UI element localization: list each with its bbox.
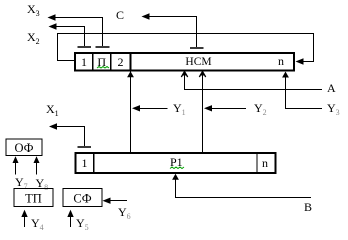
svg-text:А: А [327, 81, 336, 95]
svg-text:1: 1 [82, 156, 88, 170]
svg-text:СФ: СФ [73, 192, 91, 206]
svg-text:n: n [278, 54, 284, 68]
wire Y4 arrow into ТП [24, 216, 26, 227]
green squiggle under П [97, 67, 109, 69]
svg-text:ТП: ТП [25, 192, 42, 206]
wire X3 output arrow [55, 18, 103, 47]
svg-text:1: 1 [81, 55, 87, 69]
wire Y5 arrow into СФ [70, 216, 72, 227]
terminal over cell 1 [78, 46, 92, 48]
terminal over Р1 cell 1 [78, 146, 92, 148]
wire Y3 into n-cell bottom [286, 76, 323, 109]
wire C arrow [149, 17, 197, 48]
wire Y2 vertical from НСМ to Р1 [202, 72, 204, 153]
register Р1 [76, 153, 276, 173]
wire bus from left register edge to n-cell input [58, 34, 314, 62]
svg-text:НСМ: НСМ [185, 56, 211, 68]
svg-text:В: В [304, 200, 312, 214]
block СФ [63, 189, 102, 207]
block ОФ [6, 139, 42, 156]
svg-text:n: n [262, 156, 268, 170]
register НСМ [75, 53, 294, 71]
wire A into НСМ bottom [185, 75, 323, 90]
svg-text:ОФ: ОФ [14, 141, 33, 155]
svg-text:C: C [116, 8, 124, 22]
wire Y1 arrow into left vertical [140, 108, 168, 110]
terminal over НСМ cell [190, 47, 204, 49]
terminal over cell П [96, 46, 110, 48]
wire B into Р1 bottom [176, 178, 312, 198]
svg-text:2: 2 [118, 55, 124, 69]
wire НСМ output to Р1 (left vertical) [130, 72, 132, 153]
wire X1 output arrow [57, 127, 85, 147]
wire Y6 arrow into СФ right side [110, 200, 127, 202]
wire Y2 arrow into vertical [212, 108, 246, 110]
wire Y8 arrow into ОФ [36, 163, 38, 175]
wire X2 output arrow [56, 27, 85, 47]
block ТП [14, 189, 53, 207]
green squiggle under Р1 [170, 167, 184, 169]
wire Y7 arrow into ОФ [15, 163, 17, 175]
